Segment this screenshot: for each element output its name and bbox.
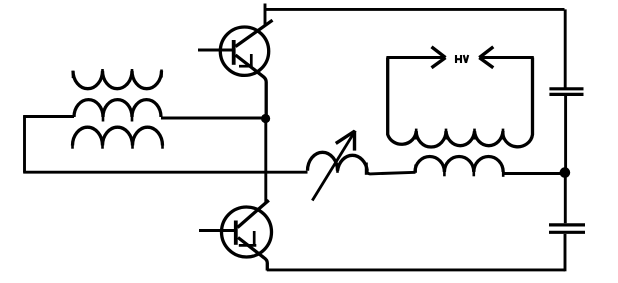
- transformer T1 secondary winding (middle humps): [74, 100, 161, 117]
- node midpoint junction: [261, 114, 270, 123]
- inductor L1 arrowhead barbs: [336, 131, 355, 143]
- HV left arrowhead: [432, 47, 446, 68]
- wire T2 primary right lead: [503, 172, 562, 175]
- transistor Q1 collector stroke: [236, 20, 273, 46]
- wire Q1 collector riser: [264, 4, 267, 27]
- capacitor C1 bottom plate: [549, 93, 583, 96]
- wire Q2 base lead: [199, 229, 235, 232]
- wire Q1 base lead: [198, 49, 233, 52]
- transistor Q2 body: [222, 207, 272, 257]
- wire left vertical: [23, 115, 26, 172]
- wire right rail lower: [564, 172, 567, 223]
- HV right arrowhead: [479, 47, 493, 68]
- wire right rail bottom: [564, 234, 567, 271]
- transistor Q2 collector stroke: [238, 200, 269, 227]
- transformer T2 secondary (HV cups): [388, 58, 533, 148]
- wire HV loop left horizontal: [386, 56, 443, 59]
- node right junction: [560, 167, 571, 178]
- transistor Q1 emitter stroke: [236, 55, 267, 115]
- wire T1 secondary left lead: [23, 115, 74, 118]
- wire L1 right lead: [367, 171, 416, 174]
- wire right rail middle: [564, 96, 567, 168]
- wire mid rail between transistors: [264, 118, 267, 203]
- capacitor C2 top plate: [549, 223, 585, 226]
- label HV: [456, 55, 468, 63]
- transformer T1 primary winding (top cups): [73, 71, 162, 89]
- wire right rail upper: [564, 9, 567, 87]
- transistor Q2 emitter arrow (PNP): [239, 244, 256, 247]
- transformer T1 tertiary winding (bottom humps): [73, 127, 163, 145]
- wire long bottom horizontal to inductor: [23, 171, 307, 174]
- wire HV loop right horizontal: [482, 56, 534, 59]
- capacitor C1 top plate: [549, 87, 583, 90]
- transistor Q1 base bar: [232, 40, 236, 65]
- transistor Q2 base bar: [234, 221, 238, 245]
- wire T1 secondary right lead: [161, 117, 264, 120]
- transformer T2 primary (humps): [415, 157, 503, 173]
- transistor Q1 body: [220, 27, 268, 75]
- inductor L1 variable (humps): [308, 152, 368, 171]
- wire bottom rail: [267, 268, 565, 271]
- transistor Q2 emitter stroke: [238, 238, 267, 271]
- inductor L1 arrow shaft: [312, 131, 355, 201]
- wire top rail: [264, 8, 565, 11]
- transistor Q1 emitter arrow (PNP): [239, 65, 253, 68]
- capacitor C2 bottom plate: [549, 231, 585, 234]
